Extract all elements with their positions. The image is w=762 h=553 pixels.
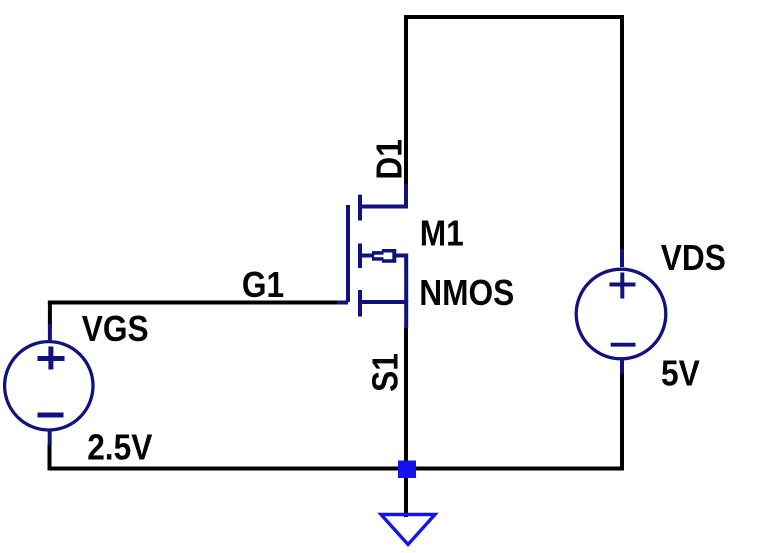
svg-text:NMOS: NMOS — [419, 273, 514, 313]
svg-text:VGS: VGS — [82, 309, 149, 349]
svg-text:VDS: VDS — [661, 238, 726, 278]
svg-text:D1: D1 — [369, 139, 409, 179]
svg-text:2.5V: 2.5V — [87, 428, 153, 468]
svg-text:S1: S1 — [365, 353, 405, 392]
svg-text:M1: M1 — [420, 213, 464, 253]
svg-text:G1: G1 — [242, 265, 284, 305]
svg-text:5V: 5V — [661, 354, 700, 394]
